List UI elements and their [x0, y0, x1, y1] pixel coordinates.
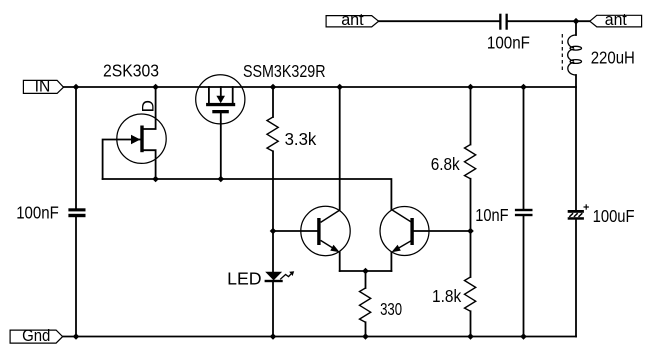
svg-text:D: D: [139, 100, 158, 112]
inductor L1 core dashed line: [561, 34, 563, 73]
wire JFET drain lead: [144, 87, 156, 129]
wire left 100nF branch upper: [75, 87, 77, 208]
svg-text:1.8k: 1.8k: [432, 286, 461, 306]
transistor U2 source bar: [212, 110, 229, 113]
wire inductor bottom lead: [575, 75, 577, 210]
transistor U2 arrow: [216, 96, 225, 103]
wire MOSFET arrow shaft: [220, 87, 222, 96]
node dot gnd-1.8k: [467, 333, 474, 340]
svg-text:Gnd: Gnd: [22, 326, 50, 345]
transistor U2 gate bar: [206, 103, 235, 106]
svg-text:6.8k: 6.8k: [431, 154, 460, 174]
svg-text:3.3k: 3.3k: [285, 129, 317, 149]
wire left 100nF branch lower: [75, 217, 77, 337]
svg-text:330: 330: [380, 299, 402, 319]
wire Q2 emitter diagonal: [394, 240, 412, 250]
transistor U1 channel bar: [140, 126, 143, 153]
wire inductor top lead: [575, 21, 577, 35]
node dot ant junction: [573, 18, 580, 25]
wire 6.8k branch top: [470, 87, 472, 145]
LED D1 emission arrow: [280, 274, 291, 279]
wire 330 branch bottom: [365, 322, 367, 336]
transistor Q1 circle: [301, 206, 350, 255]
wire Q2 emitter vertical: [390, 252, 392, 271]
resistor R2 6.8k: [465, 145, 476, 179]
node ant flag right: [590, 15, 642, 27]
node IN flag: [23, 80, 63, 93]
wire MOSFET left vertical: [208, 87, 210, 103]
wire LED to bottom rail: [272, 282, 274, 337]
inductor L1 220uH: [568, 35, 582, 75]
transistor Q2 circle: [380, 207, 429, 256]
svg-text:ant: ant: [341, 10, 364, 29]
wire top rail: [379, 20, 499, 22]
node dot gnd-10nF: [520, 333, 527, 340]
transistor Q2 base bar: [410, 218, 413, 245]
wire main rail: [64, 86, 577, 88]
wire Q1 collector diagonal: [321, 210, 340, 222]
node dot Q1 base: [270, 228, 277, 235]
svg-text:2SK303: 2SK303: [103, 61, 159, 81]
resistor R4 330: [360, 288, 371, 322]
node dot rail-6.8k: [467, 84, 474, 91]
wire Q1 base: [273, 230, 317, 232]
wire Q1 emitter vertical: [339, 252, 341, 271]
LED D1 cathode bar: [265, 280, 283, 282]
node dot rail-10nF: [520, 84, 527, 91]
wire 6.8k-1.8k mid: [470, 179, 472, 277]
wire bottom rail: [63, 336, 576, 338]
svg-text:100uF: 100uF: [593, 206, 635, 226]
transistor U1 2SK303 circle: [117, 114, 166, 163]
node dot emitter join: [362, 268, 369, 275]
wire top rail right of cap: [508, 20, 590, 22]
node dot JFET source: [152, 176, 159, 183]
wire 330 branch top: [365, 271, 367, 288]
svg-text:100nF: 100nF: [16, 203, 59, 223]
wire Q1 collector vertical: [339, 87, 341, 210]
node dot gnd-100nF: [73, 333, 80, 340]
capacitor C3 10nF plates: [515, 209, 533, 211]
transistor U2 SSM3K329R circle: [196, 75, 245, 124]
transistor Q1 base bar: [317, 218, 320, 245]
resistor R3 1.8k: [465, 277, 476, 311]
node dot gnd-330: [362, 333, 369, 340]
wire JFET source lead: [144, 150, 156, 179]
node dot rail-3.3k: [270, 84, 277, 91]
svg-text:IN: IN: [35, 77, 51, 96]
node dot Q2 base divider: [467, 228, 474, 235]
capacitor C1 100nF left plates: [68, 208, 85, 211]
capacitor C4 100uF electrolytic: [568, 210, 584, 213]
wire MOSFET source lead: [220, 113, 222, 179]
svg-text:SSM3K329R: SSM3K329R: [243, 61, 326, 81]
node ant flag left: [326, 16, 379, 27]
wire source bus y=178: [103, 179, 392, 210]
resistor R1 3.3k: [267, 117, 278, 151]
wire 1.8k bottom: [470, 311, 472, 336]
wire JFET gate lead: [103, 140, 141, 180]
svg-text:LED: LED: [227, 269, 262, 289]
wire emitter join: [340, 270, 392, 272]
wire Q2 base: [414, 230, 471, 232]
transistor Q2 emitter arrow: [391, 245, 400, 253]
svg-text:10nF: 10nF: [475, 205, 508, 225]
node dot gnd-LED: [270, 333, 277, 340]
wire 3.3k branch top: [272, 87, 274, 117]
wire 100uF bottom lead: [575, 220, 577, 337]
wire 3.3k to LED: [272, 151, 274, 272]
LED D1 triangle: [265, 272, 282, 281]
svg-text:100nF: 100nF: [487, 33, 530, 53]
capacitor C4 plus sign: [584, 204, 589, 209]
node dot rail-Q1 collector: [336, 84, 343, 91]
svg-text:220uH: 220uH: [591, 48, 635, 68]
wire Q2 collector diagonal: [391, 210, 411, 223]
transistor Q1 emitter arrow: [330, 245, 339, 253]
node dot rail-IN: [73, 18, 580, 340]
capacitor C2 100nF top plates: [499, 14, 501, 30]
svg-text:ant: ant: [605, 10, 627, 29]
wire 10nF branch bottom: [523, 216, 525, 336]
wire MOSFET right vertical: [232, 87, 234, 103]
node dot rail-JFET drain: [152, 84, 159, 91]
node Gnd flag: [10, 330, 63, 343]
wire 10nF branch top: [523, 87, 525, 209]
transistor U1 gate arrow: [131, 135, 140, 144]
node dot MOSFET source: [218, 176, 225, 183]
wire Q1 emitter diagonal: [321, 240, 337, 250]
